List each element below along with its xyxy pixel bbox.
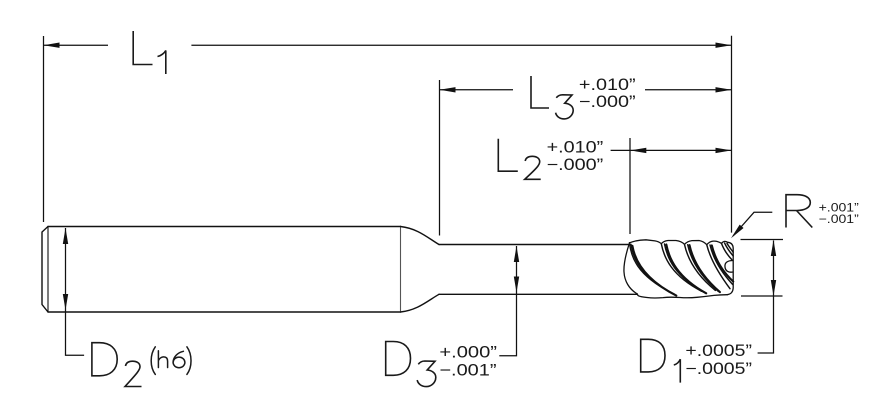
svg-text:+.010”: +.010” xyxy=(547,138,604,156)
svg-text:−.0005”: −.0005” xyxy=(685,359,752,377)
svg-text:−.001”: −.001” xyxy=(439,360,496,379)
svg-text:+.0005”: +.0005” xyxy=(685,341,752,359)
svg-text:+.010”: +.010” xyxy=(579,76,636,94)
svg-text:+.000”: +.000” xyxy=(439,342,497,361)
svg-text:−.001”: −.001” xyxy=(819,212,859,226)
svg-text:−.000”: −.000” xyxy=(579,93,636,111)
svg-text:−.000”: −.000” xyxy=(547,156,604,174)
